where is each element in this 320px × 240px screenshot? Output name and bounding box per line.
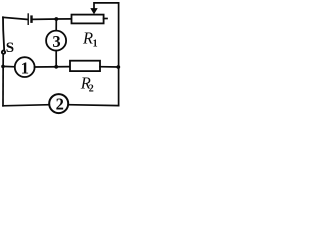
wire battery to node A	[33, 18, 57, 20]
meter 1 circle	[15, 57, 35, 77]
wire right side	[118, 3, 120, 106]
wire node B to ammeter 1	[3, 65, 15, 67]
svg-text:1: 1	[21, 58, 29, 77]
wire left lower	[2, 54, 4, 106]
battery long plate	[27, 14, 29, 24]
node C junction dot	[54, 65, 58, 69]
battery short thick plate	[30, 17, 32, 22]
node A junction dot	[54, 17, 58, 21]
svg-text:1: 1	[93, 38, 98, 49]
wire R2 to right wire	[100, 66, 119, 68]
svg-text:R: R	[82, 28, 93, 47]
wire node A to meter 3	[55, 19, 57, 31]
rheostat R1 slider arrowhead	[90, 8, 97, 14]
svg-text:3: 3	[52, 32, 60, 51]
wire node A to R1	[56, 18, 71, 20]
wire meter 3 to node C	[55, 51, 57, 67]
svg-text:2: 2	[56, 95, 64, 114]
svg-text:S: S	[6, 40, 14, 56]
meter 2 circle	[49, 94, 68, 113]
node D junction dot	[116, 65, 120, 69]
resistor R2 body	[70, 61, 100, 71]
wire top-left	[3, 17, 28, 19]
svg-text:2: 2	[89, 83, 94, 94]
rheostat R1 body	[72, 15, 104, 24]
wire left upper	[3, 17, 4, 50]
wire bottom left	[3, 105, 49, 106]
wire R1 right stub	[104, 18, 107, 20]
meter 3 circle	[46, 31, 66, 51]
wire meter1 to R2	[35, 66, 70, 68]
wire bottom right	[68, 104, 118, 107]
rheostat R1 slider wire	[94, 3, 119, 9]
switch S hinge	[2, 51, 5, 54]
node B junction dot	[1, 65, 5, 69]
